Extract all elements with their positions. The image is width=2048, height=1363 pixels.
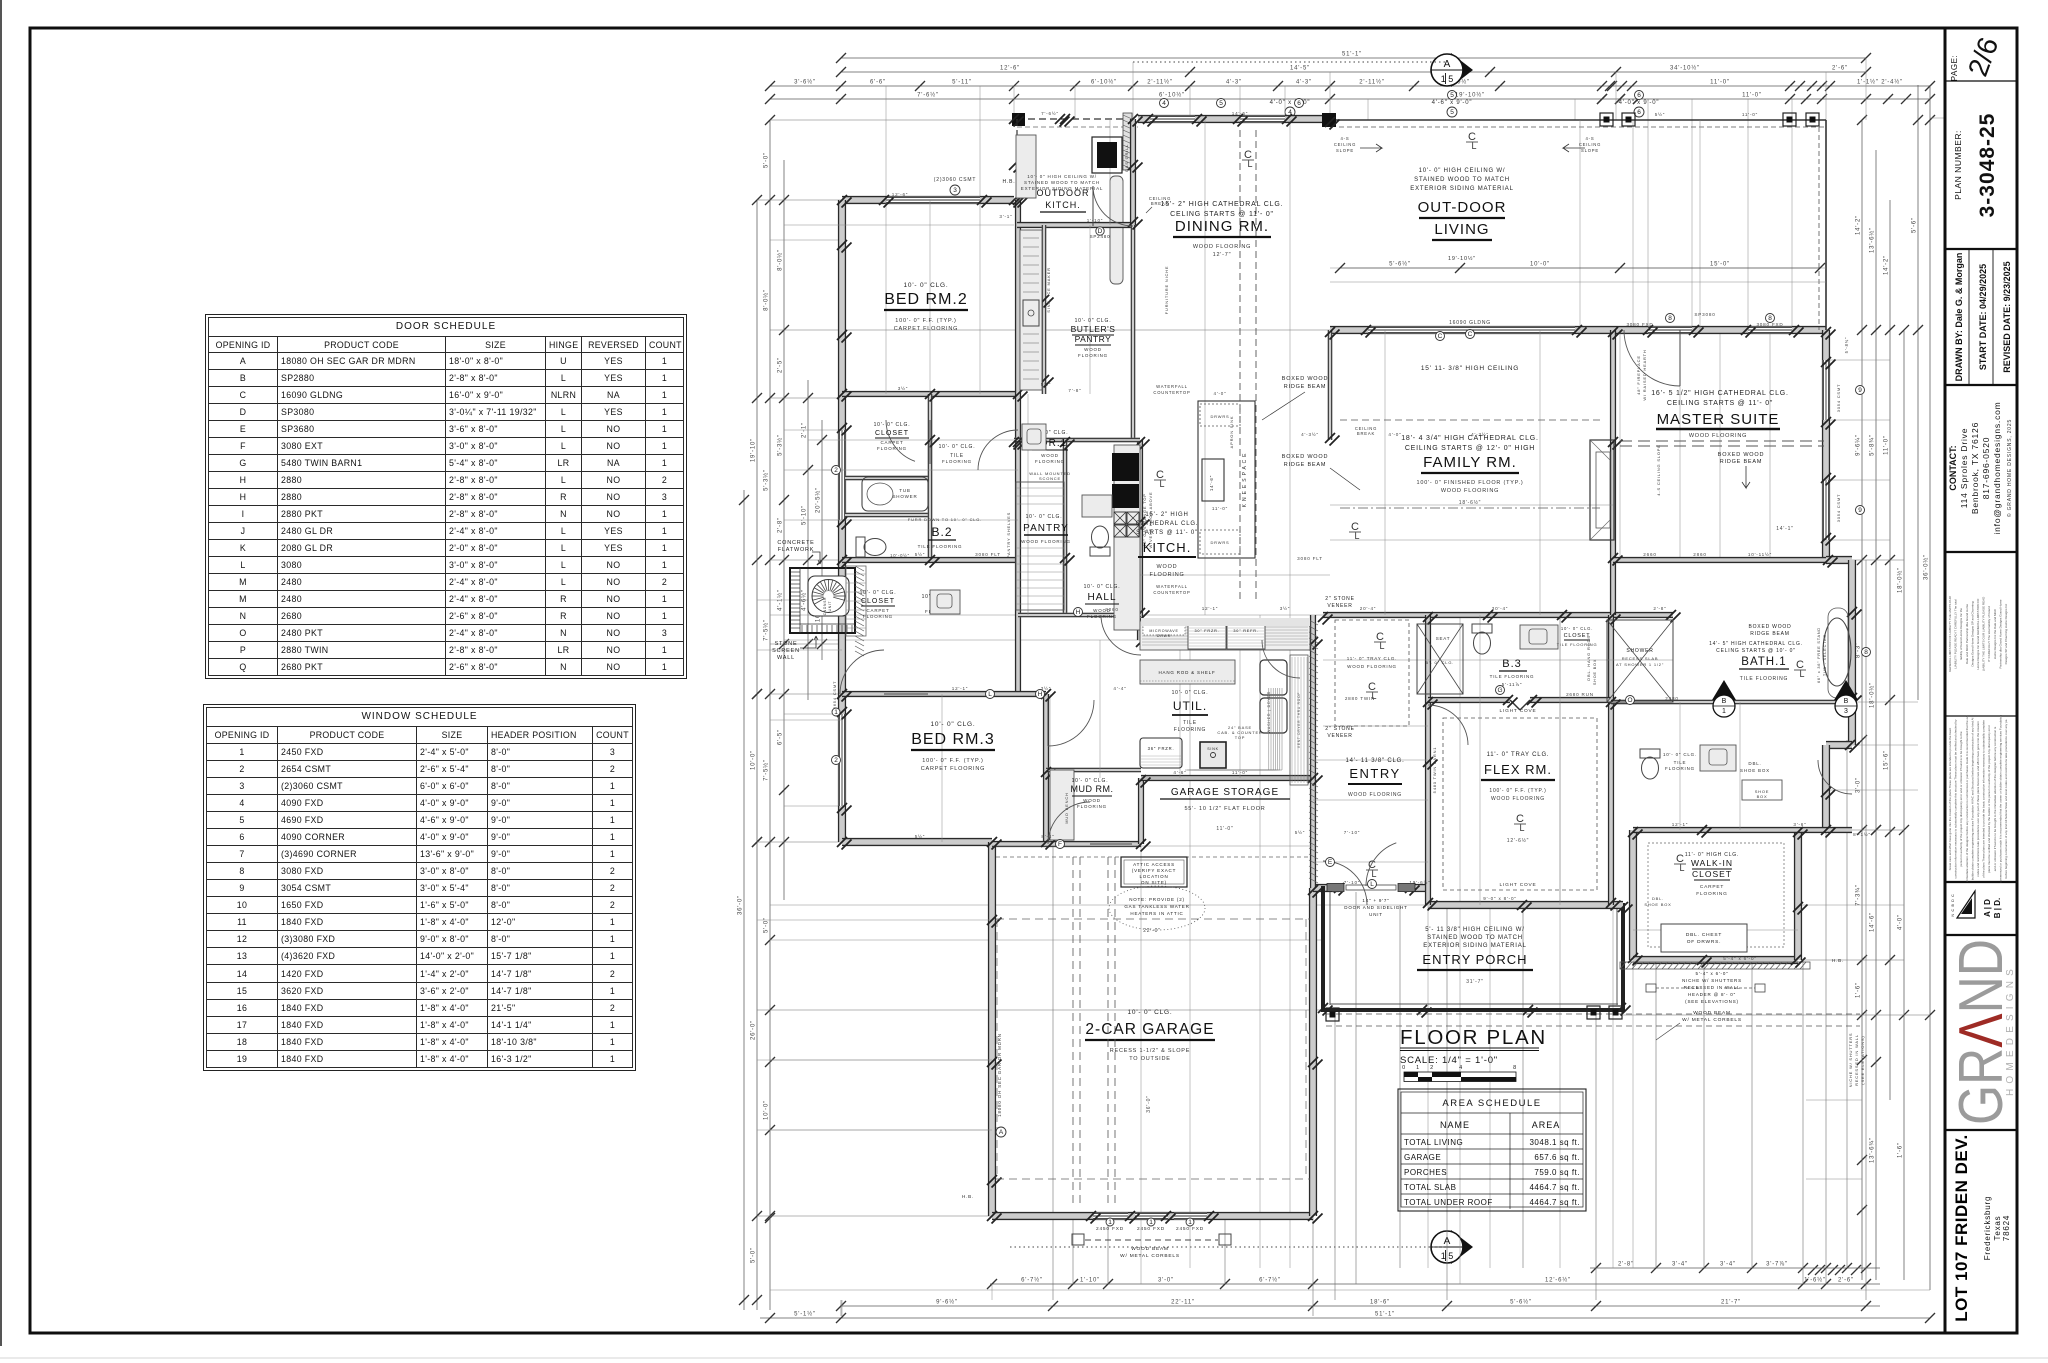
svg-text:LIGHT COVE: LIGHT COVE	[1500, 882, 1537, 888]
svg-text:5'-11": 5'-11"	[952, 80, 972, 86]
svg-text:person in authority of the pro: person in authority of the project Any d…	[1959, 731, 1963, 867]
svg-text:1: 1	[1416, 1065, 1420, 1071]
porch beam dashes + posts	[1326, 1013, 1860, 1015]
svg-text:8'-0½": 8'-0½"	[777, 249, 784, 271]
svg-text:FLEX RM.: FLEX RM.	[1484, 762, 1552, 777]
svg-text:PANTRY: PANTRY	[1023, 523, 1069, 534]
svg-text:3054 CSMT: 3054 CSMT	[1836, 384, 1841, 413]
svg-text:1 5: 1 5	[1441, 74, 1454, 84]
svg-text:10'- 0" CLG.: 10'- 0" CLG.	[1128, 1009, 1173, 1016]
svg-text:NOTE: PROVIDE (2): NOTE: PROVIDE (2)	[1129, 897, 1185, 902]
svg-text:Fredericksburg: Fredericksburg	[1983, 1196, 1992, 1261]
svg-text:WOOD FLOORING: WOOD FLOORING	[1021, 539, 1071, 544]
svg-text:16'- 5 1/2" HIGH CATHEDRAL CLG: 16'- 5 1/2" HIGH CATHEDRAL CLG.	[1651, 390, 1789, 397]
svg-text:TILE: TILE	[1674, 760, 1687, 765]
svg-text:RIDGE BEAM: RIDGE BEAM	[1750, 631, 1789, 637]
svg-text:11'-0": 11'-0"	[1884, 435, 1890, 455]
36 FRZR	[1140, 738, 1182, 768]
svg-text:8: 8	[1513, 1065, 1517, 1071]
svg-text:Partnership dba Grand Home Des: Partnership dba Grand Home Designs Grand…	[1998, 599, 2002, 668]
tankless note cloud	[1109, 886, 1205, 930]
washer dryer stacked	[1260, 660, 1287, 695]
svg-text:2: 2	[834, 467, 838, 474]
svg-text:WOOD BEAM: WOOD BEAM	[1131, 1246, 1169, 1252]
svg-text:7'-5½": 7'-5½"	[763, 619, 770, 641]
title block	[1944, 28, 1947, 1333]
svg-text:CATHEDRAL CLG.: CATHEDRAL CLG.	[1136, 521, 1199, 527]
svg-text:2'-5": 2'-5"	[778, 357, 784, 373]
svg-text:KITCH.: KITCH.	[1045, 200, 1081, 210]
svg-text:SLOPE: SLOPE	[1336, 148, 1354, 153]
svg-text:L: L	[1519, 823, 1524, 833]
svg-text:TILE FLOORING: TILE FLOORING	[1740, 676, 1788, 682]
svg-text:HEATERS IN ATTIC: HEATERS IN ATTIC	[1130, 911, 1183, 916]
svg-text:(VERIFY EXACT: (VERIFY EXACT	[1132, 868, 1176, 873]
svg-text:5: 5	[1450, 92, 1454, 99]
svg-text:8'-3": 8'-3"	[1856, 642, 1862, 658]
svg-text:7'-10": 7'-10"	[1344, 880, 1361, 885]
svg-text:B.3: B.3	[1502, 658, 1522, 670]
dimension lines: top rows	[841, 57, 1866, 59]
svg-text:TOTAL SLAB: TOTAL SLAB	[1404, 1183, 1456, 1192]
svg-text:3-3048-25: 3-3048-25	[1976, 113, 1999, 218]
svg-text:0: 0	[1402, 1065, 1406, 1071]
outdoor kitchen counters	[1016, 135, 1036, 198]
svg-text:9: 9	[1858, 387, 1862, 394]
svg-text:11'- 0" TRAY CLG.: 11'- 0" TRAY CLG.	[1347, 656, 1398, 661]
svg-text:18'-6½": 18'-6½"	[1459, 499, 1482, 506]
svg-text:10'- 0" CLG.: 10'- 0" CLG.	[1561, 626, 1593, 631]
butlers pantry counters	[1020, 230, 1042, 390]
svg-text:CEILING: CEILING	[1334, 142, 1356, 147]
svg-text:EXTERIOR SIDING MATERIAL: EXTERIOR SIDING MATERIAL	[1021, 186, 1103, 191]
svg-text:2'-6": 2'-6"	[1832, 66, 1848, 72]
svg-text:10'- 0" HIGH CEILING W/: 10'- 0" HIGH CEILING W/	[1419, 168, 1506, 174]
svg-text:BED RM.2: BED RM.2	[884, 291, 968, 308]
svg-text:5'-0": 5'-0"	[764, 917, 770, 933]
svg-text:12'-6": 12'-6"	[1000, 66, 1020, 72]
scattered bubbles on walls	[832, 466, 841, 475]
svg-text:4: 4	[1459, 1065, 1463, 1071]
svg-text:7'-5½": 7'-5½"	[763, 759, 770, 781]
svg-text:51'-1": 51'-1"	[1342, 52, 1362, 58]
svg-text:14'-5": 14'-5"	[1290, 66, 1310, 72]
svg-text:COUNTERTOP: COUNTERTOP	[1153, 390, 1190, 395]
svg-text:21'-7": 21'-7"	[1721, 1300, 1741, 1306]
svg-text:H: H	[1038, 691, 1043, 698]
svg-text:14'-1": 14'-1"	[1776, 526, 1794, 532]
svg-text:FLOORING: FLOORING	[1665, 766, 1695, 771]
svg-text:LIABILITY PLEASE READ IT CAREF: LIABILITY PLEASE READ IT CAREFULLY The t…	[1954, 599, 1958, 669]
double slash junction ticks	[1009, 114, 1019, 124]
svg-text:3'-6": 3'-6"	[1793, 822, 1806, 827]
svg-text:E: E	[1328, 859, 1333, 866]
svg-text:10'-0": 10'-0"	[1530, 262, 1550, 268]
svg-text:FLOORING: FLOORING	[1077, 804, 1107, 809]
svg-text:PLAN NUMBER:: PLAN NUMBER:	[1953, 130, 1963, 200]
svg-text:12'-7": 12'-7"	[1213, 252, 1232, 258]
svg-text:13'-6¾": 13'-6¾"	[1870, 1137, 1876, 1163]
svg-text:11'-0": 11'-0"	[1232, 770, 1248, 775]
svg-text:TUB: TUB	[899, 488, 910, 493]
svg-text:GARAGE: GARAGE	[1404, 1153, 1441, 1162]
svg-text:DBL.: DBL.	[1652, 896, 1664, 901]
extra tick clusters	[1597, 81, 1607, 91]
svg-text:18'- 4 3/4" HIGH CATHEDRAL CLG: 18'- 4 3/4" HIGH CATHEDRAL CLG.	[1401, 435, 1539, 442]
svg-text:NICHE W/ SHUTTERS: NICHE W/ SHUTTERS	[1682, 978, 1742, 983]
stone screen wall + condenser pad (left stamp)	[790, 568, 855, 633]
svg-text:4'-0" x 9'-0": 4'-0" x 9'-0"	[1619, 100, 1660, 106]
svg-text:5'-6½": 5'-6½"	[1510, 1299, 1532, 1306]
hang rod & shelf	[1140, 660, 1235, 684]
svg-text:3: 3	[1844, 708, 1848, 715]
svg-text:LOCATION: LOCATION	[1139, 874, 1168, 879]
section marker A/15 bottom	[1451, 1230, 1473, 1264]
svg-text:9'-6¼": 9'-6¼"	[1856, 434, 1862, 456]
svg-text:10'- 0" CLG.: 10'- 0" CLG.	[860, 590, 897, 596]
svg-text:immediate attention of the des: immediate attention of the designer befo…	[1965, 715, 1969, 882]
out-door living boundary (open porch)	[1330, 119, 1826, 121]
svg-text:ENTRY: ENTRY	[1349, 766, 1400, 781]
svg-text:5'-0": 5'-0"	[764, 152, 770, 168]
svg-text:O: O	[1627, 697, 1632, 704]
svg-text:14'-2": 14'-2"	[1856, 215, 1862, 235]
svg-text:11'-0": 11'-0"	[1742, 112, 1758, 117]
svg-text:GARAGE STORAGE: GARAGE STORAGE	[1171, 787, 1279, 798]
PDR.1	[1090, 526, 1110, 556]
svg-text:10'- 0" HIGH CEILING W/: 10'- 0" HIGH CEILING W/	[1027, 174, 1097, 179]
svg-text:2'-6": 2'-6"	[1838, 1278, 1854, 1284]
svg-text:26'-0": 26'-0"	[751, 1020, 757, 1040]
svg-text:TILE: TILE	[1183, 720, 1197, 726]
svg-text:FAMILY RM.: FAMILY RM.	[1423, 454, 1517, 471]
svg-text:2450 FXD: 2450 FXD	[1096, 1226, 1124, 1232]
svg-text:IT CAREFULLY The total liabili: IT CAREFULLY The total liability of Gran…	[1987, 606, 1991, 662]
svg-text:1'-10": 1'-10"	[1087, 218, 1104, 223]
svg-text:3'-0": 3'-0"	[1158, 1278, 1174, 1284]
svg-text:12'-6½": 12'-6½"	[1507, 837, 1530, 844]
svg-text:2-CAR GARAGE: 2-CAR GARAGE	[1085, 1021, 1214, 1038]
svg-text:5: 5	[1219, 100, 1223, 107]
FLEX RM	[1443, 718, 1597, 890]
svg-text:2'-8": 2'-8"	[1618, 1262, 1634, 1268]
svg-text:14'-5": 14'-5"	[1232, 111, 1249, 116]
svg-text:4'-3": 4'-3"	[1296, 80, 1312, 86]
kitchen island	[1198, 401, 1255, 558]
svg-text:14'-6": 14'-6"	[1209, 475, 1214, 491]
svg-text:builder obtain complete engine: builder obtain complete engineering serv…	[1970, 717, 1974, 880]
svg-text:2450 FXD: 2450 FXD	[1176, 1226, 1204, 1232]
svg-text:3½": 3½"	[1280, 605, 1290, 611]
svg-text:(SEE ELEVATIONS): (SEE ELEVATIONS)	[1860, 1035, 1865, 1084]
svg-text:VENT DRYER THRU ROOF: VENT DRYER THRU ROOF	[1297, 692, 1301, 748]
util sink	[1200, 742, 1226, 768]
svg-text:2880 TWIN: 2880 TWIN	[1345, 696, 1375, 701]
svg-text:14'- 5" HIGH CATHEDRAL CLG.: 14'- 5" HIGH CATHEDRAL CLG.	[1709, 641, 1803, 647]
svg-text:STONE: STONE	[775, 641, 798, 647]
svg-text:WOOD FLOORING: WOOD FLOORING	[1347, 664, 1397, 669]
svg-text:GAS TANKLESS WATER: GAS TANKLESS WATER	[1124, 904, 1189, 909]
svg-text:DRWR: DRWR	[1157, 634, 1171, 638]
svg-text:30" FRZR.: 30" FRZR.	[1194, 629, 1219, 633]
svg-text:13'-6½": 13'-6½"	[1869, 227, 1876, 253]
small vanity boxes	[1022, 424, 1046, 450]
svg-text:CLOSET: CLOSET	[875, 430, 909, 437]
svg-text:Dale and Mitch Partnership dba: Dale and Mitch Partnership dba Grand Hom…	[1965, 604, 1969, 664]
svg-text:20'-4": 20'-4"	[1360, 606, 1377, 611]
svg-text:817-696-0520: 817-696-0520	[1981, 437, 1991, 500]
svg-text:of the plans These plans are i: of the plans These plans are intended to…	[1982, 720, 1986, 878]
svg-text:19'-10½": 19'-10½"	[1448, 255, 1476, 262]
WALK-IN CLOSET	[1648, 843, 1784, 947]
svg-text:info@grandhomedesigns.com: info@grandhomedesigns.com	[1992, 401, 2002, 534]
svg-text:16090 GLDNG: 16090 GLDNG	[1449, 320, 1491, 326]
svg-text:1: 1	[1722, 708, 1726, 715]
interior extension line web (texture)	[885, 86, 887, 200]
svg-text:UNIT: UNIT	[828, 601, 832, 612]
svg-text:W/ METAL CORBELS: W/ METAL CORBELS	[1120, 1253, 1180, 1259]
svg-text:10'- 0" CLG.: 10'- 0" CLG.	[904, 282, 949, 289]
svg-text:MICROWAVE: MICROWAVE	[1149, 629, 1178, 633]
svg-text:L: L	[1370, 881, 1374, 888]
svg-text:TOTAL UNDER ROOF: TOTAL UNDER ROOF	[1404, 1198, 1493, 1207]
svg-text:LOT 107 FRIDEN DEV.: LOT 107 FRIDEN DEV.	[1952, 1134, 1971, 1321]
svg-text:PAGE:: PAGE:	[1950, 55, 1959, 81]
svg-text:12'-6": 12'-6"	[892, 192, 909, 197]
svg-text:114 Sproles Drive: 114 Sproles Drive	[1959, 428, 1969, 509]
svg-text:LIABILITY THE LIMITS OUR LIABI: LIABILITY THE LIMITS OUR LIABILITY PLEAS…	[1982, 596, 1986, 671]
pantry shelves	[1016, 482, 1064, 610]
svg-text:5'-4" x 6'-0": 5'-4" x 6'-0"	[1723, 956, 1757, 961]
svg-text:START DATE: 04/29/2025: START DATE: 04/29/2025	[1978, 264, 1988, 370]
svg-text:SP3080: SP3080	[1694, 312, 1715, 317]
svg-text:TOP: TOP	[1235, 735, 1246, 740]
svg-text:1'-10": 1'-10"	[1080, 1278, 1100, 1284]
svg-text:A: A	[999, 1129, 1004, 1136]
svg-text:K N E E S P A C E: K N E E S P A C E	[1242, 453, 1248, 508]
svg-text:5½": 5½"	[1655, 111, 1665, 117]
svg-text:Designs SP and Charming Home D: Designs SP and Charming Home Designs Inc	[2004, 603, 2008, 664]
svg-text:plans must be verified and che: plans must be verified and checked by th…	[1987, 725, 1991, 873]
svg-text:LIVING: LIVING	[1434, 221, 1489, 238]
svg-text:4'-6" x 9'-0": 4'-6" x 9'-0"	[1432, 100, 1473, 106]
svg-text:HANG ROD & SHELF: HANG ROD & SHELF	[1158, 670, 1215, 675]
svg-text:5480 TWIN BARN1: 5480 TWIN BARN1	[1432, 747, 1437, 794]
svg-text:Texas: Texas	[1993, 1216, 2002, 1241]
walk-in closet walls	[1629, 830, 1637, 960]
svg-text:8: 8	[1768, 315, 1772, 322]
svg-text:WALL: WALL	[777, 655, 795, 661]
svg-text:3054 CSMT: 3054 CSMT	[1836, 494, 1841, 523]
svg-text:4'-3½": 4'-3½"	[1301, 431, 1319, 437]
svg-text:10'- 0" CLG.: 10'- 0" CLG.	[1026, 514, 1063, 520]
svg-text:9: 9	[1858, 507, 1862, 514]
svg-text:4-S: 4-S	[1341, 136, 1350, 141]
svg-text:5'- 0" CLG.: 5'- 0" CLG.	[1426, 660, 1454, 665]
svg-text:EXTERIOR SIDING MATERIAL: EXTERIOR SIDING MATERIAL	[1423, 943, 1526, 949]
svg-text:BREAK: BREAK	[1357, 431, 1375, 436]
entry porch walls (dark)	[1321, 886, 1325, 1012]
svg-text:100'- 0" F.F. (TYP.): 100'- 0" F.F. (TYP.)	[895, 318, 956, 324]
svg-text:WOOD FLOORING: WOOD FLOORING	[1348, 792, 1402, 798]
svg-text:APRON SINK: APRON SINK	[1229, 416, 1234, 449]
svg-text:LIGHT COVE: LIGHT COVE	[1500, 708, 1537, 714]
svg-text:100'- 0" FINISHED FLOOR (TYP.): 100'- 0" FINISHED FLOOR (TYP.)	[1417, 480, 1524, 486]
svg-text:CEILING: CEILING	[1579, 142, 1601, 147]
svg-text:FURR DOWN TO 10'- 0" CLG.: FURR DOWN TO 10'- 0" CLG.	[908, 517, 982, 522]
svg-text:L: L	[1379, 641, 1384, 651]
svg-text:4'-3½": 4'-3½"	[1471, 431, 1489, 437]
svg-text:CLOSET: CLOSET	[1564, 633, 1591, 639]
long vertical extension lines through plan to bottom dims	[840, 1300, 842, 1316]
svg-text:4'-0": 4'-0"	[1898, 914, 1904, 930]
svg-text:FLOORING: FLOORING	[1696, 891, 1727, 897]
svg-text:19'-10½": 19'-10½"	[1455, 92, 1485, 99]
svg-text:15'- 2" HIGH CATHEDRAL CLG.: 15'- 2" HIGH CATHEDRAL CLG.	[1161, 201, 1284, 208]
svg-text:codes and restrictions take pr: codes and restrictions take precedence o…	[1976, 721, 1980, 877]
svg-text:GAS GRILL: GAS GRILL	[1124, 144, 1129, 172]
svg-text:commenced or purchases made It: commenced or purchases made It is recomm…	[1998, 715, 2002, 883]
svg-text:2'-8": 2'-8"	[778, 517, 784, 533]
svg-text:A: A	[1444, 59, 1451, 70]
svg-text:SCONCE: SCONCE	[1039, 476, 1061, 481]
svg-text:2680 RUN: 2680 RUN	[1566, 692, 1594, 697]
svg-text:RIDGE BEAM: RIDGE BEAM	[1284, 462, 1327, 468]
svg-text:1'-6": 1'-6"	[1898, 1142, 1904, 1158]
svg-text:RIDGE BEAM: RIDGE BEAM	[1284, 384, 1327, 390]
svg-text:51'-1": 51'-1"	[1375, 1312, 1395, 1318]
svg-text:WOOD: WOOD	[1157, 564, 1178, 570]
dimension lines: left columns	[743, 490, 745, 1310]
svg-text:BED RM.3: BED RM.3	[911, 731, 995, 748]
svg-text:L: L	[1679, 863, 1684, 873]
svg-text:3048.1 sq ft.: 3048.1 sq ft.	[1529, 1138, 1580, 1147]
svg-text:SHOE BOX: SHOE BOX	[1644, 902, 1671, 907]
svg-text:BOXED WOOD: BOXED WOOD	[1282, 454, 1329, 460]
svg-text:BREAK: BREAK	[1151, 201, 1169, 206]
svg-text:L: L	[1159, 479, 1164, 489]
svg-text:3½": 3½"	[898, 385, 908, 391]
svg-text:5'-1½": 5'-1½"	[794, 1311, 816, 1318]
svg-text:9'-0" x 8'-0": 9'-0" x 8'-0"	[1483, 896, 1517, 901]
drain hatch band	[1290, 655, 1308, 785]
svg-text:5'-0": 5'-0"	[751, 1247, 757, 1263]
svg-text:2" STONE: 2" STONE	[1325, 596, 1354, 602]
svg-text:4-S CEILING SLOPE: 4-S CEILING SLOPE	[1656, 444, 1661, 495]
svg-text:15'- 2" HIGH: 15'- 2" HIGH	[1145, 512, 1188, 518]
svg-text:VENEER: VENEER	[1327, 603, 1352, 609]
svg-text:14'-2": 14'-2"	[1884, 255, 1890, 275]
svg-text:55'- 10 1/2" FLAT FLOOR: 55'- 10 1/2" FLAT FLOOR	[1184, 806, 1265, 812]
svg-text:OUT-DOOR: OUT-DOOR	[1418, 199, 1507, 216]
svg-text:FLOORING: FLOORING	[1149, 572, 1184, 578]
svg-text:L: L	[1354, 531, 1359, 541]
svg-text:30'-4": 30'-4"	[1492, 606, 1509, 611]
svg-text:7'-6½": 7'-6½"	[1041, 110, 1059, 116]
hatched wall column at dining/outdoor kitchen	[1123, 113, 1132, 170]
outdoor kitchen grill	[1092, 137, 1122, 173]
svg-text:RIDGE BEAM: RIDGE BEAM	[1720, 459, 1763, 465]
svg-text:NICHE W/ SHUTTERS: NICHE W/ SHUTTERS	[1848, 1033, 1853, 1088]
svg-text:10'-0": 10'-0"	[764, 1100, 770, 1120]
svg-text:3'-1": 3'-1"	[999, 214, 1012, 219]
svg-text:W/ METAL CORBELS: W/ METAL CORBELS	[1682, 1017, 1742, 1023]
svg-text:12'-6½": 12'-6½"	[1545, 1277, 1571, 1284]
dimension lines: right columns	[1861, 120, 1863, 1280]
svg-text:30" REFR.: 30" REFR.	[1233, 629, 1258, 633]
svg-text:construction information neces: construction information necessary to su…	[1954, 719, 1958, 879]
svg-text:SHOWER: SHOWER	[1626, 648, 1653, 654]
front door + sidelights	[1332, 884, 1412, 892]
svg-text:7'-3¾": 7'-3¾"	[1856, 884, 1862, 906]
svg-text:UTIL.: UTIL.	[1173, 699, 1207, 713]
svg-text:2" STONE: 2" STONE	[1325, 726, 1354, 732]
stone veneer hatch on entry west wall	[1309, 620, 1318, 625]
svg-text:3'-0": 3'-0"	[1856, 777, 1862, 793]
svg-text:10'- 0" CLG.: 10'- 0" CLG.	[939, 444, 976, 450]
svg-text:H.B.: H.B.	[1832, 958, 1844, 963]
svg-text:6'-7½": 6'-7½"	[1259, 1277, 1281, 1284]
svg-text:RECESSED IN WALL: RECESSED IN WALL	[1684, 985, 1741, 990]
svg-text:8: 8	[1864, 649, 1868, 656]
svg-text:N C B D C: N C B D C	[1951, 893, 1955, 916]
svg-text:(2)3060 CSMT: (2)3060 CSMT	[934, 177, 976, 183]
svg-text:NAME: NAME	[1440, 1120, 1470, 1130]
svg-text:SEAT: SEAT	[1436, 636, 1451, 641]
svg-text:1'-1½" 2'-4½": 1'-1½" 2'-4½"	[1857, 79, 1903, 86]
svg-text:3080 FLT: 3080 FLT	[975, 552, 1001, 557]
svg-text:(SEE ELEVATIONS): (SEE ELEVATIONS)	[1685, 999, 1739, 1004]
svg-text:10'- 0" CLG.: 10'- 0" CLG.	[931, 721, 976, 728]
svg-text:34'-10½": 34'-10½"	[1670, 65, 1700, 72]
svg-text:WATERFALL: WATERFALL	[1156, 384, 1188, 389]
svg-text:ON SITE): ON SITE)	[1141, 880, 1167, 885]
svg-text:18'-0½": 18'-0½"	[1869, 682, 1876, 708]
svg-text:2'-11½": 2'-11½"	[1147, 79, 1172, 86]
svg-text:ATTIC ACCESS: ATTIC ACCESS	[1133, 862, 1175, 867]
svg-text:1: 1	[1108, 1219, 1112, 1226]
svg-text:8: 8	[1668, 315, 1672, 322]
badge logo cell	[1957, 891, 1975, 918]
svg-text:B.2: B.2	[931, 525, 952, 539]
svg-text:5'-11⅞": 5'-11⅞"	[1502, 682, 1522, 687]
exterior walls	[1017, 118, 1138, 120]
svg-text:H.B.: H.B.	[962, 1194, 974, 1199]
svg-text:100'- 0" F.F. (TYP.): 100'- 0" F.F. (TYP.)	[1489, 788, 1546, 794]
door swing arcs	[1093, 186, 1133, 226]
svg-text:CARPET: CARPET	[1700, 884, 1724, 890]
svg-text:4'-0": 4'-0"	[1388, 432, 1401, 437]
svg-text:1: 1	[1188, 1219, 1192, 1226]
svg-text:L: L	[1799, 669, 1804, 679]
svg-text:Home Designs Inc the Dale and: Home Designs Inc the Dale and Mitch	[1993, 608, 1997, 659]
svg-text:6'-7½": 6'-7½"	[1021, 1277, 1043, 1284]
svg-text:2: 2	[1430, 1065, 1434, 1071]
svg-text:5'-3½": 5'-3½"	[777, 434, 784, 456]
svg-text:66" x 36" FREE STAND: 66" x 36" FREE STAND	[1817, 627, 1821, 683]
svg-text:2660: 2660	[1643, 552, 1656, 557]
hall built-ins / hatched counters	[1141, 618, 1310, 626]
svg-text:4'-0" x 9'-0": 4'-0" x 9'-0"	[1270, 100, 1311, 106]
svg-text:22'-0": 22'-0"	[1143, 928, 1161, 934]
garage dashed door tracks	[1072, 857, 1074, 1205]
svg-text:FLOORING: FLOORING	[1174, 727, 1207, 733]
svg-text:CEILING STARTS @ 12'- 0" HIGH: CEILING STARTS @ 12'- 0" HIGH	[1405, 445, 1535, 452]
svg-text:6'-10½": 6'-10½"	[1159, 92, 1185, 99]
svg-text:15'-6": 15'-6"	[1884, 750, 1890, 770]
svg-text:SLOPE: SLOPE	[1581, 148, 1599, 153]
svg-text:11'-0": 11'-0"	[1742, 93, 1762, 99]
